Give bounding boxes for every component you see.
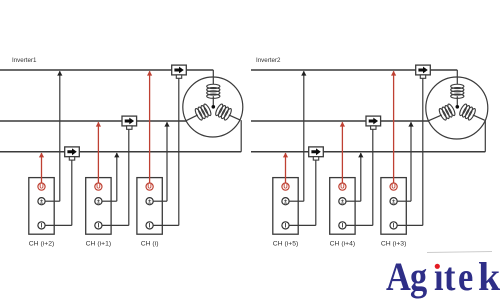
svg-text:CH (i+4): CH (i+4) <box>330 241 356 248</box>
svg-text:U: U <box>96 185 100 191</box>
svg-text:Inverter1: Inverter1 <box>12 57 37 64</box>
svg-text:U: U <box>283 185 287 191</box>
svg-text:Inverter2: Inverter2 <box>256 57 281 64</box>
svg-text:U: U <box>391 185 395 191</box>
svg-text:U: U <box>340 185 344 191</box>
svg-text:CH (i+3): CH (i+3) <box>381 241 407 248</box>
svg-text:U: U <box>147 185 151 191</box>
svg-text:U: U <box>39 185 43 191</box>
svg-text:CH (i+2): CH (i+2) <box>29 241 55 248</box>
svg-text:CH (i+1): CH (i+1) <box>86 241 112 248</box>
svg-text:CH (i+5): CH (i+5) <box>273 241 299 248</box>
svg-text:CH (i): CH (i) <box>141 241 159 248</box>
